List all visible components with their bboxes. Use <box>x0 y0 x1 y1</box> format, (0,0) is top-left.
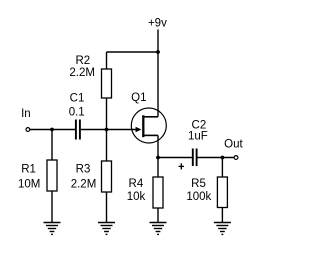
svg-text:In: In <box>21 108 31 120</box>
ground (R5) <box>214 223 231 235</box>
svg-text:R4: R4 <box>129 178 144 190</box>
svg-text:+9v: +9v <box>148 18 167 30</box>
label C2 value <box>188 119 208 142</box>
node: gate junction <box>105 128 109 132</box>
wire: rail horizontal to R2 top <box>107 51 159 53</box>
wire: gate node to Q1 gate <box>107 129 137 131</box>
svg-text:Q1: Q1 <box>131 92 146 104</box>
svg-text:R3: R3 <box>76 164 91 176</box>
wire: C2 to output <box>198 157 235 159</box>
svg-text:Out: Out <box>224 138 243 150</box>
wire: +9v supply vertical <box>157 30 159 53</box>
label R2 value <box>69 55 95 79</box>
ground (R1) <box>44 223 61 235</box>
svg-text:2.2M: 2.2M <box>71 178 97 190</box>
polarity + mark <box>179 163 184 169</box>
resistor R4 <box>153 158 163 223</box>
label C1 value <box>69 92 85 118</box>
capacitor C2 (polarized) <box>193 149 197 167</box>
terminal In <box>21 108 31 131</box>
svg-text:R1: R1 <box>21 164 36 176</box>
resistor R5 <box>217 158 227 223</box>
capacitor C1 <box>76 120 80 140</box>
resistor R3 <box>102 130 112 223</box>
resistor R1 <box>47 130 57 223</box>
ground (R4) <box>150 223 167 235</box>
transistor Q1 (N-JFET) <box>131 52 166 158</box>
label R1 value <box>18 164 40 191</box>
svg-text:100k: 100k <box>186 191 211 203</box>
svg-text:C1: C1 <box>70 92 85 104</box>
node: source junction <box>156 156 160 160</box>
svg-text:1uF: 1uF <box>188 130 208 142</box>
node: rail junction <box>156 50 160 54</box>
ground (R3) <box>98 223 115 235</box>
svg-text:0.1: 0.1 <box>69 107 85 119</box>
svg-text:R2: R2 <box>75 55 90 67</box>
svg-text:R5: R5 <box>191 178 206 190</box>
svg-text:10M: 10M <box>18 178 40 190</box>
svg-text:10k: 10k <box>127 191 146 203</box>
label R3 value <box>71 164 97 191</box>
label R4 value <box>127 178 146 203</box>
node: R1 junction <box>50 128 54 132</box>
svg-text:2.2M: 2.2M <box>69 67 95 79</box>
node: output junction <box>221 156 225 160</box>
label R5 value <box>186 178 211 203</box>
resistor R2 <box>102 52 112 130</box>
wire: source to C2 <box>158 157 192 159</box>
terminal Out <box>224 138 243 159</box>
wire: C1 to gate node <box>81 129 107 131</box>
wire: input to C1 <box>30 129 75 131</box>
